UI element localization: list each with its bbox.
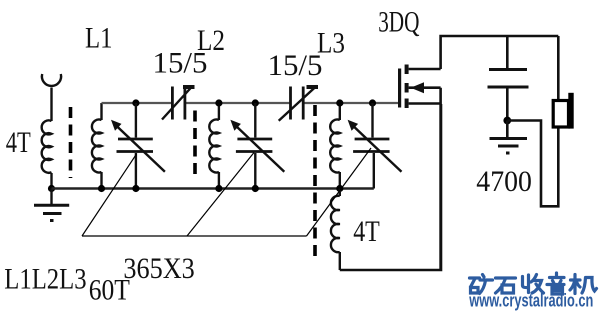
svg-text:4T: 4T (6, 126, 31, 159)
node ground junction (48, 185, 55, 192)
wire coil to ground node (50, 173, 52, 189)
wire source/body down (439, 88, 442, 271)
node C2 bottom (252, 185, 259, 192)
wire top rail segment 2 (185, 102, 291, 104)
inductor L2 (209, 103, 219, 189)
wire C4 node to phone return (507, 121, 558, 207)
ground 2 (490, 121, 528, 154)
svg-text:15/5: 15/5 (268, 49, 323, 82)
node C3 top (369, 99, 376, 106)
svg-text:4700: 4700 (476, 165, 532, 198)
node C2 top (252, 99, 259, 106)
node C1 top (132, 99, 139, 106)
trimmer capacitor CT1 15/5 (162, 86, 195, 120)
coil L0 4T antenna winding (42, 120, 52, 172)
coil L4 4T secondary winding (331, 189, 340, 271)
svg-text:15/5: 15/5 (153, 46, 208, 79)
variable capacitor C1 (116, 103, 165, 189)
coupling core dash C (313, 105, 317, 258)
wire top rail to phone (557, 36, 560, 100)
node L2 bottom (215, 185, 222, 192)
node L3 bottom junction (336, 185, 343, 192)
svg-text:3DQ: 3DQ (378, 6, 420, 39)
variable capacitor C2 (235, 103, 284, 189)
svg-text:4T: 4T (353, 215, 380, 248)
trimmer capacitor CT2 15/5 (279, 86, 318, 121)
transistor Q1 3DQ MOSFET (398, 65, 441, 109)
node L1 coil bottom (98, 185, 105, 192)
logo kuang shi shou yin ji (470, 273, 597, 294)
capacitor C4 4700 (488, 36, 529, 121)
wire top rail segment 3 (303, 102, 398, 104)
gang link diagonal 3 (307, 148, 372, 236)
variable capacitor C3 (353, 103, 402, 189)
node C1 bottom (132, 185, 139, 192)
wire top rail segment 1 (102, 102, 173, 104)
ground (34, 189, 69, 221)
coupling core dash B (193, 111, 197, 177)
node L2 top (215, 99, 222, 106)
gang link diagonal 2 (187, 153, 254, 237)
gang link diagonal 1 (82, 154, 137, 236)
coupling core dash A (69, 107, 73, 178)
speaker BP earphone (553, 93, 574, 129)
wire drain to top rail (441, 36, 559, 69)
antenna (42, 74, 61, 121)
node C4 bottom (503, 117, 511, 125)
node L3 top (336, 99, 343, 106)
wire secondary bottom to source (340, 104, 441, 270)
inductor L3 (330, 103, 340, 189)
wire bottom rail (52, 187, 374, 189)
inductor L1 (92, 103, 102, 189)
svg-text:L1L2L3: L1L2L3 (4, 263, 86, 296)
gang link bar (82, 235, 307, 237)
svg-text:www.crystalradio.cn: www.crystalradio.cn (469, 291, 594, 311)
svg-text:365X3: 365X3 (123, 252, 194, 285)
svg-text:L1: L1 (85, 21, 113, 54)
